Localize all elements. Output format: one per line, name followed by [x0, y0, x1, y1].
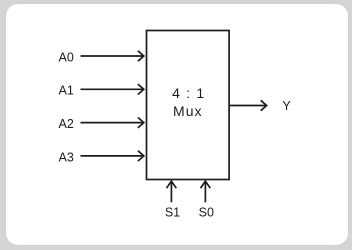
arrowhead S1 — [167, 181, 177, 188]
wire A3 — [81, 155, 144, 157]
svg-text:S1: S1 — [165, 205, 180, 219]
wire S1 — [170, 182, 172, 203]
arrowhead A1 — [138, 84, 144, 94]
wire S0 — [204, 182, 206, 203]
arrowhead S0 — [201, 181, 211, 188]
svg-text:S0: S0 — [199, 205, 214, 219]
svg-text:A2: A2 — [59, 117, 74, 131]
arrowhead A2 — [138, 117, 144, 127]
svg-text:A1: A1 — [59, 84, 74, 98]
mux box U1 — [147, 31, 230, 180]
svg-text:A0: A0 — [59, 50, 74, 64]
wire A0 — [81, 55, 144, 57]
wire A2 — [81, 122, 144, 124]
wire Y output — [230, 105, 267, 107]
svg-text:4 : 1: 4 : 1 — [172, 85, 204, 101]
arrowhead A3 — [138, 151, 144, 161]
svg-text:Y: Y — [282, 99, 291, 113]
svg-text:Mux: Mux — [173, 103, 203, 119]
arrowhead Y — [261, 100, 267, 110]
arrowhead A0 — [138, 51, 144, 61]
svg-text:A3: A3 — [59, 150, 74, 164]
wire A1 — [81, 88, 144, 90]
